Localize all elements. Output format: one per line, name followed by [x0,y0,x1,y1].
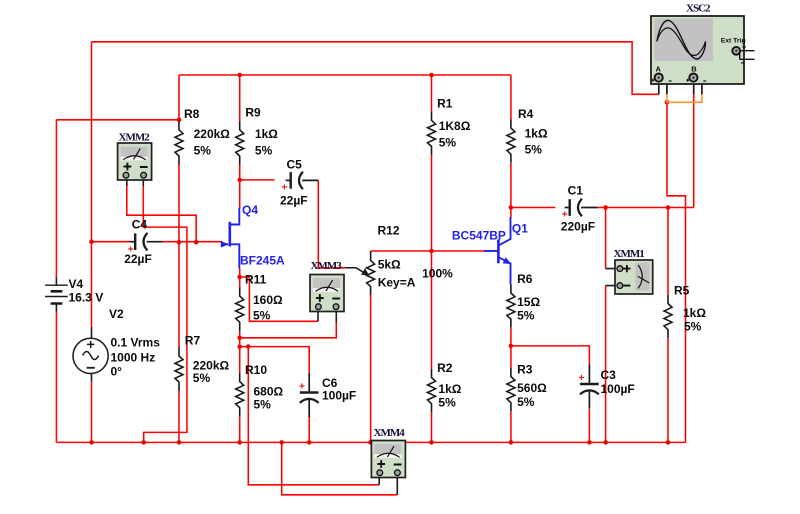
svg-text:+: + [282,183,288,194]
junction V2/C4 tap [89,239,94,244]
junction drain node [237,178,242,183]
resistor R8 [175,121,183,164]
svg-text:1kΩ: 1kΩ [255,127,278,141]
svg-text:XMM4: XMM4 [374,427,406,439]
capacitor C6 [300,373,319,417]
svg-text:5%: 5% [684,320,702,334]
svg-text:R8: R8 [184,107,200,121]
svg-text:C1: C1 [568,184,584,198]
junction R1/R2 base node [429,249,434,254]
svg-text:R3: R3 [517,363,533,377]
junction XMM4 minus ground [279,440,284,445]
svg-text:5%: 5% [517,309,535,323]
wire XMM2 plus to gate node [127,185,196,242]
resistor R7 [175,347,183,390]
wire R9 bottom to JFET drain [239,164,241,208]
junction XMM2 minus ground [141,440,146,445]
potentiometer R12 [346,251,375,295]
wire R6 bottom to R3 top [510,328,512,368]
wire rail to R8 [178,75,180,122]
junction emitter bypass node [509,344,514,349]
junction XMM2 plus on gate wire [194,240,199,245]
wire V2 to C4 [92,241,131,243]
wire V4 bottom lead to ground rail [55,312,57,443]
junction C6 ground [307,440,312,445]
resistor R10 [236,373,244,416]
svg-text:R4: R4 [518,107,534,121]
junction R9 top on rail [237,73,242,78]
wire drain to C5 [240,179,275,181]
svg-text:XMM1: XMM1 [614,248,645,260]
wire scope B to output [693,94,695,207]
svg-text:5%: 5% [439,136,457,150]
wire R12 bottom to ground rail [370,295,372,443]
junction R10 top / C6 [237,344,242,349]
capacitor C3 [580,365,599,409]
resistor R11 [236,288,244,331]
svg-text:1kΩ: 1kΩ [683,306,706,320]
junction R12 ground [368,440,373,445]
svg-text:680Ω: 680Ω [254,385,284,399]
svg-text:C3: C3 [601,368,617,382]
svg-text:+: + [579,373,585,384]
svg-text:R7: R7 [185,334,201,348]
junction V4/R8 column [177,118,182,123]
svg-text:R10: R10 [245,363,267,377]
svg-text:1kΩ: 1kΩ [438,382,461,396]
svg-text:1000 Hz: 1000 Hz [111,351,156,365]
junction R3 ground [509,440,514,445]
wire R8 bottom to R7 top through gate node [178,164,180,347]
svg-text:100µF: 100µF [601,382,635,396]
wire V2 top to scope channel A [92,42,659,95]
wire source node to XMM3 plus [240,277,318,321]
wire XMM2 minus to ground rail [143,185,187,442]
wire rail to R9 [239,75,241,122]
svg-text:0.1 Vrms: 0.1 Vrms [111,336,161,350]
wire R10 bottom to ground rail [239,416,241,442]
junction R2 ground [429,440,434,445]
resistor R5 [664,295,672,338]
junction scope ground tap [665,100,670,105]
svg-text:5%: 5% [438,396,456,410]
junction R5 ground [666,440,671,445]
svg-text:B: B [691,65,697,74]
svg-text:16.3 V: 16.3 V [69,291,104,305]
svg-text:5%: 5% [525,143,543,157]
svg-text:Q4: Q4 [242,203,258,217]
junction C3 ground [587,440,592,445]
wire R11 bottom to XMM3 minus [240,322,337,338]
svg-text:5%: 5% [255,144,273,158]
svg-text:R6: R6 [517,272,533,286]
svg-text:BC547BP: BC547BP [452,228,506,242]
svg-text:V2: V2 [109,307,124,321]
junction R7 ground [177,440,182,445]
capacitor C4 [130,233,163,251]
svg-text:160Ω: 160Ω [253,293,283,307]
resistor R4 [507,120,515,163]
svg-text:+: + [299,382,305,393]
svg-text:15Ω: 15Ω [517,295,540,309]
svg-text:+: + [562,210,568,221]
wire V4 plus to R8 column [56,119,179,121]
oscilloscope XSC2 [651,16,755,94]
svg-text:Key=A: Key=A [378,276,416,290]
junction R5 tap [666,205,671,210]
svg-text:5kΩ: 5kΩ [378,258,401,272]
wire R7 bottom to ground rail [178,390,180,443]
wire base node to R2 [431,251,433,369]
wire V2 bottom to ground rail [91,382,93,443]
wire V4 top lead [55,120,57,278]
wire R3 bottom to ground rail [510,411,512,442]
wire R1 bottom to base node [431,155,433,251]
svg-text:100µF: 100µF [322,389,356,403]
svg-text:BF245A: BF245A [240,254,285,268]
wire R11 bottom to R10 top [239,331,241,374]
svg-text:C4: C4 [132,218,148,232]
wire C1 to output node [597,207,694,209]
junction gate node at R8/R7 column [177,240,182,245]
transistor Q1 BJT BC547BP [484,217,511,285]
resistor R1 [428,112,436,155]
wire ground rail [56,441,685,443]
svg-text:5%: 5% [193,371,211,385]
multimeter XMM3 [310,275,344,323]
svg-text:220kΩ: 220kΩ [194,127,231,141]
resistor R2 [428,369,436,412]
svg-text:A: A [656,65,662,74]
wire emitter node to C3 [511,346,590,365]
svg-text:XMM2: XMM2 [119,132,151,144]
svg-text:Ext Trig: Ext Trig [721,38,746,45]
junction source node [237,275,242,280]
wire output to XMM1 plus [605,208,607,269]
wire JFET source to R11 [239,269,241,288]
capacitor C5 [286,172,319,190]
junction XMM4 plus tap [246,344,251,349]
wire XMM1 minus to ground rail [605,286,607,443]
svg-text:R9: R9 [245,106,261,120]
svg-text:5%: 5% [253,309,271,323]
junction R1 top on rail [429,73,434,78]
junction V2 ground [89,440,94,445]
svg-text:5%: 5% [254,398,272,412]
svg-text:R1: R1 [437,97,453,111]
svg-text:+: + [128,245,134,256]
multimeter XMM1 [606,260,653,294]
junction R11 bottom / XMM3 minus [237,336,242,341]
svg-text:560Ω: 560Ω [517,381,547,395]
junction R10 ground [237,440,242,445]
svg-text:1K8Ω: 1K8Ω [439,119,471,133]
wire R4 bottom to collector node [510,163,512,218]
battery V4 [45,277,68,312]
svg-text:V4: V4 [69,277,84,291]
svg-text:100%: 100% [422,267,453,281]
wire node to XMM4 plus [248,347,379,485]
wire C6 bottom to ground rail [308,416,310,443]
svg-text:22µF: 22µF [280,194,308,208]
wire scope A- to B- link (orange) [667,94,702,102]
wire C4 to JFET gate [163,241,223,243]
svg-text:R2: R2 [437,361,453,375]
svg-text:220µF: 220µF [561,220,595,234]
wire node to C6 top [240,347,310,374]
resistor R9 [236,121,244,164]
multimeter XMM4 [371,441,405,495]
wire VCC top rail [179,74,511,76]
svg-text:R11: R11 [245,273,267,287]
svg-text:5%: 5% [517,395,535,409]
wire R12 top to Q1 base [371,250,484,252]
capacitor C1 [565,199,598,217]
transistor Q4 JFET BF245A [221,208,240,269]
svg-text:R5: R5 [674,284,690,298]
wire C5 to R12 wiper [318,180,345,267]
wire rail to R4 [510,75,512,120]
multimeter XMM2 [118,143,152,186]
svg-text:Q1: Q1 [512,222,528,236]
svg-text:0°: 0° [111,365,123,379]
svg-text:XSC2: XSC2 [686,3,711,15]
svg-text:XMM3: XMM3 [311,260,343,272]
wire output to R5 [667,208,669,296]
wire rail to R1 [431,75,433,112]
AC source V2 [73,327,108,382]
wire collector to C1 [511,207,555,209]
svg-text:5%: 5% [194,144,212,158]
wire V2 top column [91,42,93,327]
svg-text:R12: R12 [378,224,400,238]
wire R5 bottom to ground rail [667,338,669,442]
resistor R6 [507,285,515,328]
resistor R3 [507,368,515,411]
svg-text:1kΩ: 1kΩ [525,127,548,141]
svg-text:C5: C5 [287,158,303,172]
wire C3 bottom to ground rail [588,409,590,443]
junction XMM1 minus ground [603,440,608,445]
wire scope ground to ground rail [667,102,686,442]
junction collector node [509,205,514,210]
wire R2 bottom to ground rail [431,412,433,442]
wire XMM4 minus to ground rail [282,442,398,494]
junction XMM1 plus tap [603,205,608,210]
